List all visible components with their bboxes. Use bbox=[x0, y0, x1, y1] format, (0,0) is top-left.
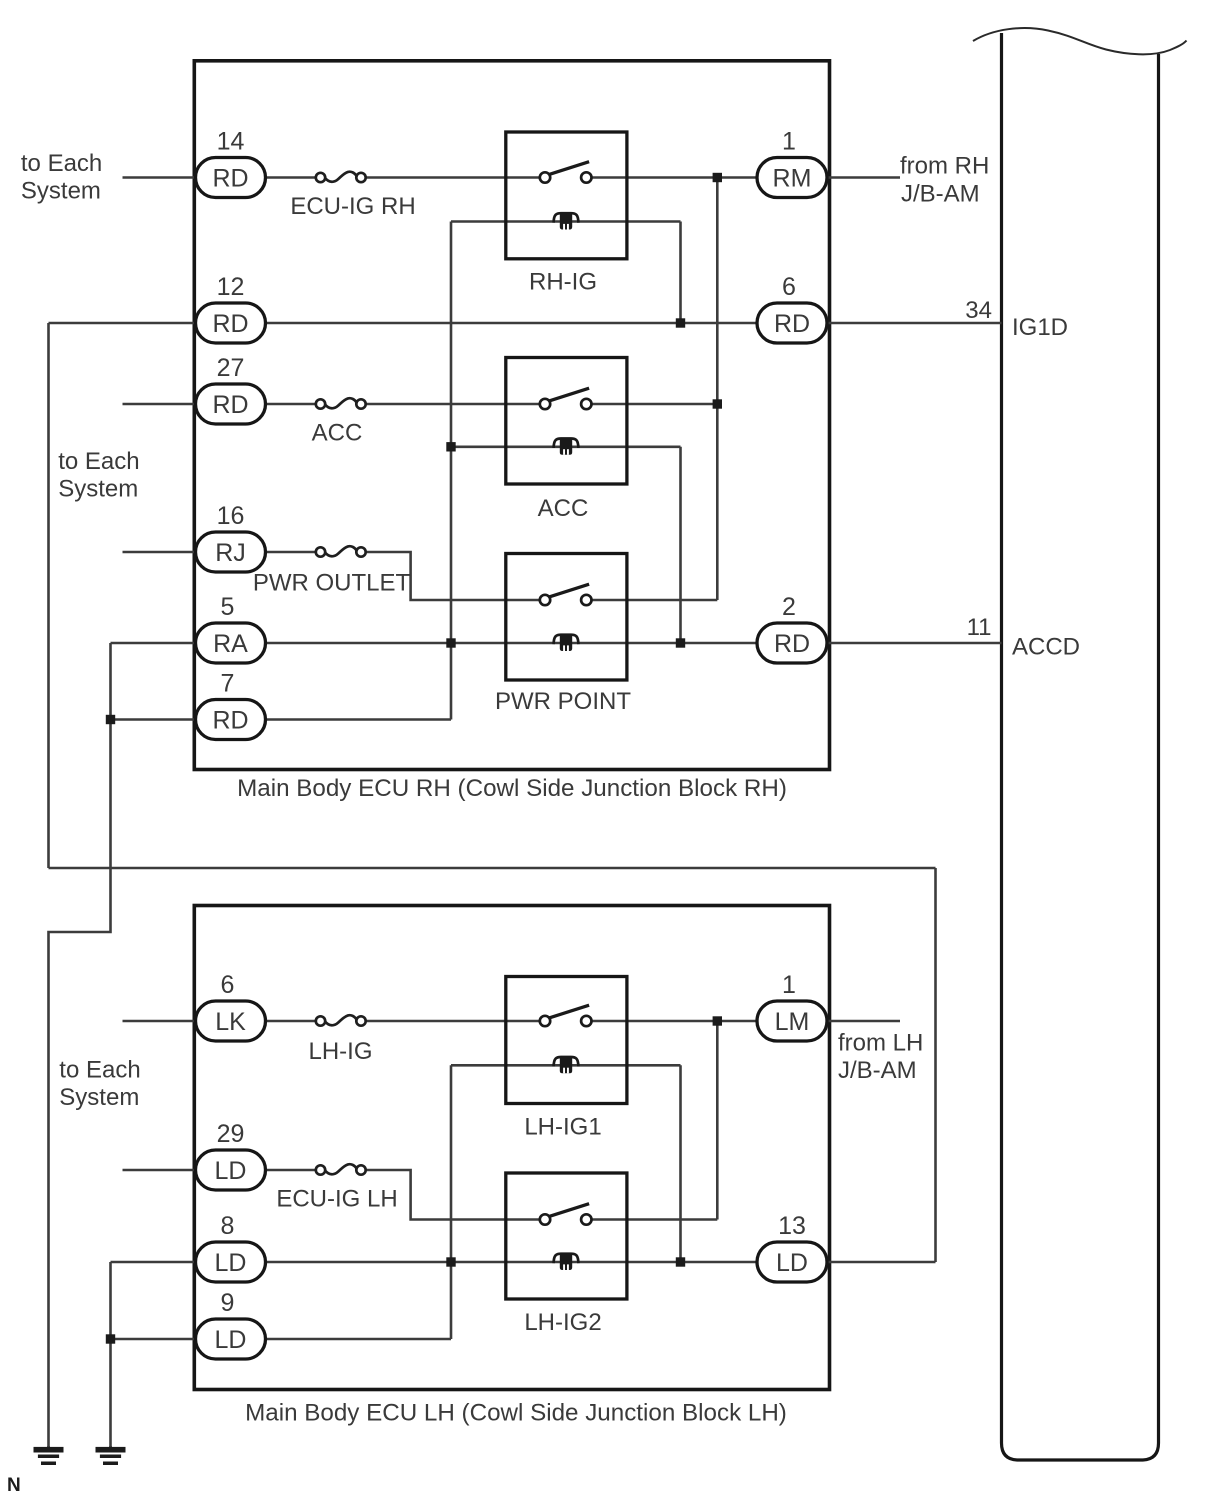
wire: RH-IG coil to IG1D row riser bbox=[679, 222, 682, 324]
wire: RM 1 to RH J/B-AM bbox=[827, 176, 900, 179]
svg-text:27: 27 bbox=[217, 354, 245, 382]
relay LH-IG2 (switch and coil) bbox=[506, 1173, 627, 1336]
svg-text:2: 2 bbox=[782, 593, 796, 621]
wire: coil-return riser down-left of relay column bbox=[450, 222, 453, 720]
wire: pin 12 to connector RD 6 bbox=[266, 322, 758, 325]
wire: LH-IG1 relay coil row bbox=[451, 1064, 681, 1067]
wire: pin 27 to fuse ACC bbox=[266, 403, 316, 406]
connector pin 6 RD bbox=[757, 273, 827, 343]
junction: RM row at distribution riser bbox=[713, 173, 722, 182]
svg-text:Main Body ECU RH (Cowl Side Ju: Main Body ECU RH (Cowl Side Junction Blo… bbox=[237, 775, 787, 802]
wire: LH-IG1 coil right riser to LD 8 row bbox=[679, 1065, 682, 1262]
ground B (right) bbox=[96, 1446, 126, 1465]
svg-text:to Each: to Each bbox=[21, 150, 102, 177]
junction: LM row at distribution riser bbox=[713, 1016, 722, 1025]
wire: LM row distribution riser to LH-IG2 switch bbox=[716, 1021, 719, 1220]
svg-text:PWR OUTLET: PWR OUTLET bbox=[253, 570, 411, 597]
svg-text:LK: LK bbox=[215, 1008, 246, 1036]
svg-text:34: 34 bbox=[965, 297, 992, 324]
label: to Each System (LH rows) bbox=[59, 1057, 140, 1112]
relay PWR POINT (switch and coil) bbox=[495, 554, 631, 716]
svg-text:LH-IG: LH-IG bbox=[308, 1038, 372, 1065]
label: from LH J/B-AM bbox=[838, 1030, 923, 1085]
connector pin 6 LK bbox=[196, 971, 266, 1041]
svg-text:RH-IG: RH-IG bbox=[529, 268, 597, 295]
svg-text:System: System bbox=[59, 1084, 139, 1111]
svg-text:from LH: from LH bbox=[838, 1030, 923, 1057]
wire: to Each System to pin 14 bbox=[123, 176, 196, 179]
wire: pin 8 LD through LH-IG2 coil to connector LD 13 bbox=[266, 1261, 758, 1264]
label: to Each System (row 14) bbox=[21, 150, 102, 205]
wire: RH-IG relay coil row bbox=[451, 220, 681, 223]
svg-text:14: 14 bbox=[217, 128, 245, 156]
ground A (left) bbox=[34, 1446, 64, 1465]
wire: fuse ACC to ACC relay switch bbox=[366, 403, 540, 406]
svg-text:LD: LD bbox=[215, 1326, 247, 1354]
svg-text:RM: RM bbox=[773, 165, 812, 193]
Main Body ECU LH block (Cowl Side Junction Block LH) bbox=[194, 906, 829, 1427]
wire: PWR POINT switch to distribution riser bbox=[591, 599, 717, 602]
ignition switch harness connector (right vertical block) bbox=[1002, 33, 1159, 1460]
wire: LD 8 left leg to riser bbox=[111, 1261, 196, 1264]
svg-text:16: 16 bbox=[217, 502, 245, 530]
connector pin 8 LD bbox=[196, 1212, 266, 1282]
wire: pin 16 to fuse PWR OUTLET bbox=[266, 551, 316, 554]
connector pin 12 RD bbox=[196, 273, 266, 343]
junction: ACC switch at distribution riser bbox=[713, 399, 722, 408]
wire: pin 14 to fuse ECU-IG RH bbox=[266, 176, 316, 179]
svg-text:RD: RD bbox=[212, 165, 248, 193]
fuse LH-IG bbox=[308, 1015, 372, 1065]
svg-text:J/B-AM: J/B-AM bbox=[901, 180, 980, 207]
wire: fuse ECU-IG LH jog to LH-IG2 switch bbox=[366, 1170, 540, 1220]
svg-text:System: System bbox=[21, 178, 101, 205]
svg-text:LD: LD bbox=[215, 1157, 247, 1185]
break (wavy) line at top of connector block bbox=[973, 28, 1187, 54]
svg-text:PWR POINT: PWR POINT bbox=[495, 688, 631, 715]
connector pin 5 RA bbox=[196, 593, 266, 663]
wire: to Each System to pin 27 bbox=[123, 403, 196, 406]
svg-text:to Each: to Each bbox=[58, 448, 139, 475]
relay LH-IG1 (switch and coil) bbox=[506, 977, 627, 1141]
connector pin 27 RD bbox=[196, 354, 266, 424]
svg-text:6: 6 bbox=[782, 273, 796, 301]
wire: ACCD row - left leg to pin 5 bbox=[111, 642, 196, 645]
svg-text:from RH: from RH bbox=[900, 153, 989, 180]
label: from RH J/B-AM bbox=[900, 153, 989, 208]
wire: IG1D cross link to LH side bbox=[49, 867, 936, 870]
svg-text:6: 6 bbox=[221, 971, 235, 999]
junction: LH-IG1 coil riser at LD 8 row bbox=[676, 1257, 685, 1266]
wire: LD 13 to IG1D link riser bbox=[827, 1261, 936, 1264]
relay RH-IG (switch and coil) bbox=[506, 132, 627, 295]
connector pin 14 RD bbox=[196, 128, 266, 198]
wire: LM 1 to LH J/B-AM bbox=[827, 1020, 900, 1023]
wire: IG1D link riser down to LD 13 row bbox=[934, 868, 937, 1262]
svg-text:N: N bbox=[7, 1475, 21, 1496]
fuse ACC bbox=[312, 398, 366, 446]
connector pin 29 LD bbox=[196, 1120, 266, 1190]
wire: fuse ECU-IG RH to RH-IG relay switch bbox=[366, 176, 540, 179]
svg-text:1: 1 bbox=[782, 971, 796, 999]
junction: ACC coil at coil-return riser bbox=[446, 442, 455, 451]
wire: to Each System to pin 16 bbox=[123, 551, 196, 554]
wire: ACC switch to distribution riser bbox=[591, 403, 717, 406]
wire: pin 7 to coil-return riser bbox=[266, 718, 452, 721]
svg-text:29: 29 bbox=[217, 1120, 245, 1148]
svg-text:ECU-IG LH: ECU-IG LH bbox=[276, 1186, 397, 1213]
wire: RD 6 to ignition connector pin 34 (IG1D) bbox=[827, 322, 1002, 325]
svg-text:ACCD: ACCD bbox=[1012, 634, 1080, 661]
wire: pin 9 left leg to LH ground riser bbox=[111, 1338, 196, 1341]
wire: pin 6 to fuse LH-IG bbox=[266, 1020, 316, 1023]
connector pin 9 LD bbox=[196, 1289, 266, 1359]
wire: pin 29 to fuse ECU-IG LH bbox=[266, 1169, 316, 1172]
svg-text:9: 9 bbox=[221, 1289, 235, 1317]
ignition connector pin 11 and net ACCD bbox=[967, 614, 1080, 661]
svg-text:LD: LD bbox=[776, 1249, 808, 1277]
wire: RD 2 to ignition connector pin 11 (ACCD) bbox=[827, 642, 1002, 645]
relay ACC (switch and coil) bbox=[506, 358, 627, 522]
wire: pin 7 left leg to riser B junction bbox=[111, 718, 196, 721]
svg-text:ECU-IG RH: ECU-IG RH bbox=[290, 193, 415, 220]
junction: RH-IG coil riser at IG1D row bbox=[676, 318, 685, 327]
svg-text:5: 5 bbox=[221, 593, 235, 621]
wire: fuse LH-IG to LH-IG1 relay switch bbox=[366, 1020, 540, 1023]
svg-text:LH-IG1: LH-IG1 bbox=[524, 1114, 601, 1141]
connector pin 16 RJ bbox=[196, 502, 266, 572]
svg-text:LD: LD bbox=[215, 1249, 247, 1277]
fuse PWR OUTLET bbox=[253, 546, 411, 596]
svg-text:1: 1 bbox=[782, 128, 796, 156]
svg-text:LM: LM bbox=[775, 1008, 810, 1036]
svg-text:RD: RD bbox=[212, 391, 248, 419]
junction: ACC coil riser at ACCD row bbox=[676, 638, 685, 647]
wire: LH ground riser from pin 8 row to ground B bbox=[109, 1262, 112, 1448]
svg-text:RA: RA bbox=[213, 630, 248, 658]
wire: ground riser B from pin 5 row jog to ground A bbox=[49, 643, 111, 1448]
svg-text:to Each: to Each bbox=[59, 1057, 140, 1084]
svg-text:RD: RD bbox=[212, 310, 248, 338]
svg-text:Main Body ECU LH (Cowl Side Ju: Main Body ECU LH (Cowl Side Junction Blo… bbox=[245, 1400, 787, 1427]
svg-text:RD: RD bbox=[212, 707, 248, 735]
svg-text:RD: RD bbox=[774, 630, 810, 658]
wire: fuse PWR OUTLET jog to PWR POINT switch bbox=[366, 552, 540, 600]
connector pin 1 RM bbox=[757, 128, 827, 198]
wire: ACC relay coil row bbox=[451, 445, 681, 448]
svg-text:12: 12 bbox=[217, 273, 245, 301]
wire: RH-IG switch to connector RM 1 (junction at riser) bbox=[591, 176, 757, 179]
junction: coil-return riser at ACCD row bbox=[446, 638, 455, 647]
ignition connector pin 34 and net IG1D bbox=[965, 297, 1068, 341]
connector pin 2 RD bbox=[757, 593, 827, 663]
svg-text:J/B-AM: J/B-AM bbox=[838, 1057, 917, 1084]
svg-text:LH-IG2: LH-IG2 bbox=[524, 1309, 601, 1336]
wire: IG1D riser A down from pin 12 row bbox=[47, 323, 50, 868]
svg-text:RD: RD bbox=[774, 310, 810, 338]
wire: IG1D row - left leg to ground riser bbox=[49, 322, 196, 325]
wire: to Each System to pin 29 bbox=[123, 1169, 196, 1172]
wire: LH-IG2 switch to distribution riser bbox=[591, 1218, 717, 1221]
wire: LH coil-return riser bbox=[450, 1065, 453, 1339]
svg-text:RJ: RJ bbox=[215, 539, 246, 567]
Main Body ECU RH block (Cowl Side Junction Block RH) bbox=[194, 61, 829, 802]
wire: LH-IG1 switch to connector LM 1 bbox=[591, 1020, 757, 1023]
junction: riser B at pin 7 row bbox=[106, 715, 115, 724]
svg-text:IG1D: IG1D bbox=[1012, 314, 1068, 341]
wire: RM row distribution riser to ACC / PWR POINT switches bbox=[716, 178, 719, 601]
svg-text:8: 8 bbox=[221, 1212, 235, 1240]
wire: pin 9 to LH coil-return riser bbox=[266, 1338, 452, 1341]
connector pin 7 RD bbox=[196, 670, 266, 740]
svg-text:ACC: ACC bbox=[538, 495, 589, 522]
wire: to Each System to pin 6 LK bbox=[123, 1020, 196, 1023]
wire: pin 5 RA through PWR POINT coil to connector RD 2 bbox=[266, 642, 758, 645]
connector pin 1 LM bbox=[757, 971, 827, 1041]
wire: ACC coil riser to ACCD row bbox=[679, 447, 682, 643]
label: to Each System (rows 27/16) bbox=[58, 448, 139, 503]
connector pin 13 LD bbox=[757, 1212, 827, 1282]
svg-text:7: 7 bbox=[221, 670, 235, 698]
junction: LH coil-return riser at LD 8 row bbox=[446, 1257, 455, 1266]
fuse ECU-IG LH bbox=[276, 1164, 397, 1212]
svg-text:ACC: ACC bbox=[312, 420, 363, 447]
junction: LH ground riser at pin 9 row bbox=[106, 1334, 115, 1343]
fuse ECU-IG RH bbox=[290, 172, 415, 220]
svg-text:11: 11 bbox=[967, 614, 992, 641]
svg-text:13: 13 bbox=[778, 1212, 806, 1240]
svg-text:System: System bbox=[58, 476, 138, 503]
